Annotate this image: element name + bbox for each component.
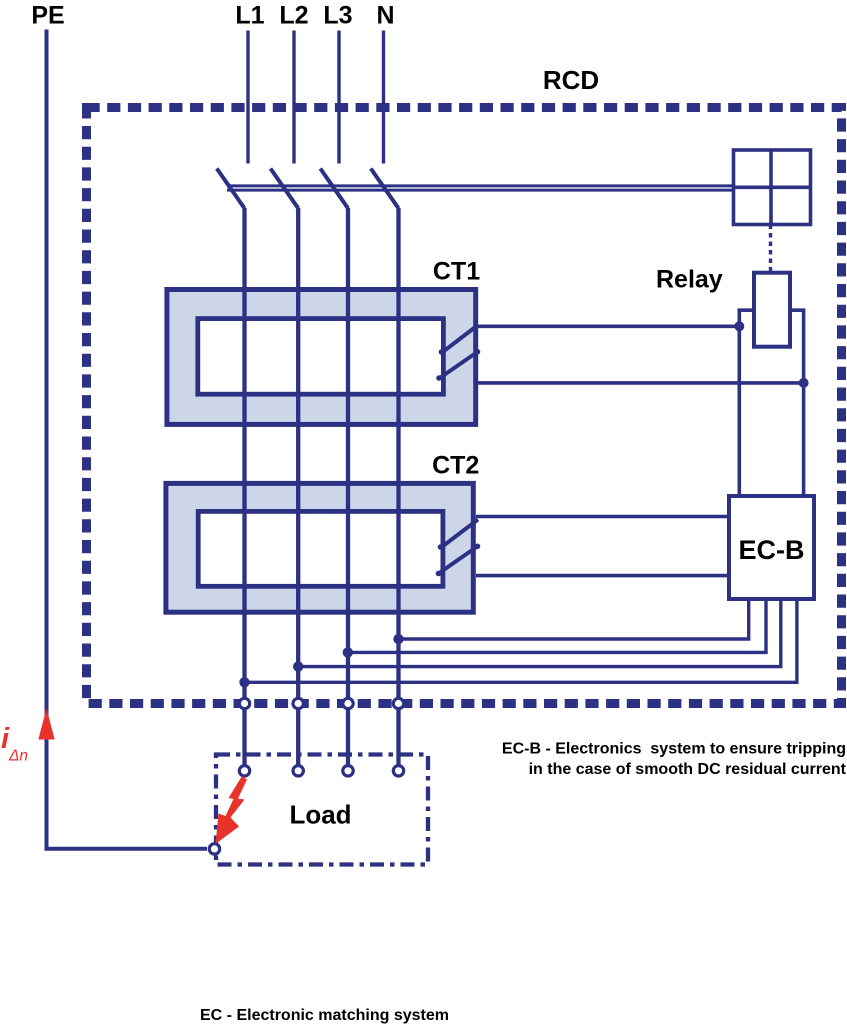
red fault lightning arrow bbox=[216, 776, 248, 844]
PE wire bbox=[47, 30, 208, 849]
CT2 slash terminal dots bbox=[438, 544, 444, 550]
wire L1 main vertical bbox=[242, 208, 246, 770]
test button box cross horizontal bbox=[734, 186, 811, 190]
junction L3 / pin2 bbox=[343, 647, 353, 657]
svg-text:PE: PE bbox=[31, 2, 64, 30]
svg-text:CT1: CT1 bbox=[433, 258, 480, 286]
CT2 core (outer, filled) bbox=[166, 483, 473, 612]
dashed link test box to relay bbox=[769, 225, 772, 273]
load box dash-dot border bbox=[216, 755, 428, 865]
CT2 window (inner) bbox=[198, 511, 443, 586]
wire L2 main vertical bbox=[296, 208, 300, 770]
svg-text:CT2: CT2 bbox=[432, 452, 479, 480]
svg-text:RCD: RCD bbox=[543, 65, 599, 95]
trip linkage bar upper line bbox=[227, 184, 734, 187]
wire CT1 secondary a bbox=[477, 324, 740, 328]
svg-text:L3: L3 bbox=[323, 2, 352, 30]
svg-text:EC-B - Electronics system to: EC-B - Electronics system to ensure trip… bbox=[502, 741, 846, 758]
terminal circles at RCD border bbox=[239, 698, 249, 708]
wire N incoming bbox=[382, 31, 385, 164]
wire N main vertical bbox=[396, 208, 400, 770]
junction relay right bbox=[799, 378, 809, 388]
wire L3 main vertical bbox=[346, 208, 350, 770]
RCD dashed enclosure border bbox=[87, 108, 842, 704]
svg-text:Δn: Δn bbox=[8, 748, 28, 765]
EC-B pin 2 bbox=[348, 601, 766, 652]
junction N / pin1 bbox=[393, 634, 403, 644]
wire CT2 secondary a bbox=[476, 515, 727, 519]
CT2 secondary slash 1 bbox=[441, 520, 478, 548]
CT1 secondary slash 2 bbox=[439, 352, 478, 379]
junction relay left bbox=[734, 321, 744, 331]
test button box bbox=[734, 150, 811, 225]
test button box cross vertical bbox=[769, 150, 773, 225]
EC-B box bbox=[729, 496, 814, 599]
red current arrow on PE wire bbox=[38, 709, 54, 740]
svg-text:N: N bbox=[376, 2, 394, 30]
switch blade pole 3 bbox=[320, 169, 348, 209]
relay coil box bbox=[754, 273, 790, 347]
CT1 core (outer, filled) bbox=[167, 290, 476, 425]
wire CT2 secondary b bbox=[476, 574, 727, 578]
wire CT1 secondary b bbox=[476, 381, 804, 385]
junction L2 / pin3 bbox=[293, 661, 303, 671]
svg-text:Relay: Relay bbox=[656, 266, 723, 294]
svg-text:EC - Electronic matching syste: EC - Electronic matching system bbox=[200, 1007, 449, 1024]
wire L2 incoming bbox=[292, 31, 295, 164]
EC-B pin 3 bbox=[298, 601, 781, 667]
junction L1 / pin4 bbox=[239, 677, 249, 687]
svg-text:L1: L1 bbox=[235, 2, 264, 30]
CT1 slash terminal dots bbox=[439, 349, 445, 355]
CT1 window (inner) bbox=[198, 319, 444, 395]
switch blade pole 2 bbox=[271, 169, 299, 209]
CT1 secondary slash 1 bbox=[442, 325, 478, 353]
switch blade pole 1 bbox=[217, 169, 245, 209]
svg-text:L2: L2 bbox=[279, 2, 308, 30]
svg-text:Load: Load bbox=[289, 800, 351, 830]
switch blade pole 4 bbox=[371, 169, 399, 209]
EC-B pin 4 bbox=[245, 601, 797, 682]
wire L3 incoming bbox=[337, 31, 340, 164]
wire L1 incoming bbox=[246, 31, 249, 164]
trip linkage bar lower line bbox=[227, 189, 734, 192]
relay output bracket bbox=[739, 310, 803, 496]
EC-B pin 1 bbox=[399, 601, 749, 639]
CT2 secondary slash 2 bbox=[439, 546, 479, 574]
svg-text:EC-B: EC-B bbox=[739, 535, 805, 565]
load terminal circles bbox=[239, 766, 249, 776]
svg-text:in the case of smooth DC resid: in the case of smooth DC residual curren… bbox=[529, 761, 847, 778]
PE fault terminal circle bbox=[209, 844, 219, 854]
